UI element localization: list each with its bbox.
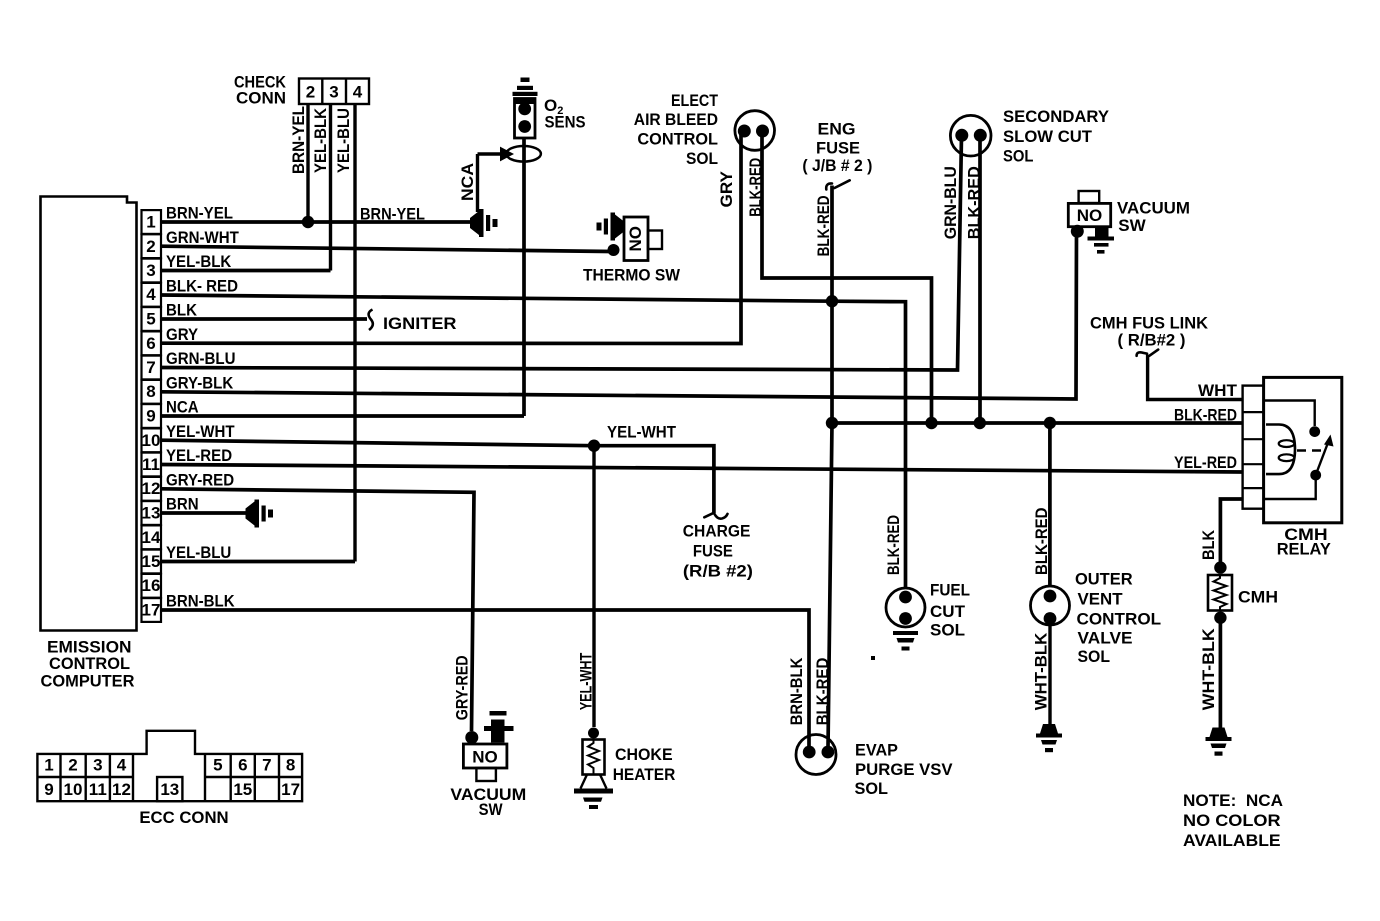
svg-text:FUSE: FUSE bbox=[816, 139, 860, 158]
wire pin1 BRN-YEL to chassis ground bbox=[161, 220, 471, 224]
svg-text:SLOW CUT: SLOW CUT bbox=[1003, 127, 1093, 146]
wire pin6 GRY to elect air bleed sol bbox=[161, 131, 741, 344]
wire WHT fus link to relay bbox=[1148, 355, 1243, 400]
svg-text:13: 13 bbox=[160, 780, 179, 799]
ground fuel cut bbox=[871, 631, 918, 660]
wire check conn 4 down bbox=[353, 104, 356, 562]
svg-text:3: 3 bbox=[329, 83, 338, 102]
svg-text:VALVE: VALVE bbox=[1078, 629, 1133, 648]
svg-text:SOL: SOL bbox=[1078, 647, 1111, 666]
svg-text:NO: NO bbox=[626, 226, 645, 252]
wire pin7 GRN-BLU to secondary slow cut sol bbox=[161, 135, 962, 370]
relay coil bbox=[1266, 425, 1295, 475]
relay switch arm bbox=[1310, 470, 1321, 481]
check connector box bbox=[299, 79, 369, 105]
svg-text:BLK-RED: BLK-RED bbox=[1174, 405, 1237, 424]
svg-text:CONTROL: CONTROL bbox=[49, 654, 130, 673]
svg-text:SECONDARY: SECONDARY bbox=[1003, 107, 1110, 126]
svg-text:EVAP: EVAP bbox=[855, 740, 898, 759]
svg-text:SOL: SOL bbox=[930, 621, 965, 640]
wire pin8 GRY-BLK to vacuum sw bbox=[161, 231, 1077, 399]
ECC pin 6 box bbox=[142, 331, 162, 355]
svg-text:HEATER: HEATER bbox=[613, 765, 676, 784]
wire pin5 BLK to igniter bbox=[161, 317, 367, 321]
junction bus / outer vent bbox=[1044, 417, 1056, 429]
thermo chassis ground bbox=[597, 213, 625, 241]
svg-text:CONTROL: CONTROL bbox=[637, 130, 718, 149]
svg-text:YEL-BLU: YEL-BLU bbox=[334, 108, 353, 173]
thermo switch bbox=[608, 217, 663, 261]
svg-text:GRN-WHT: GRN-WHT bbox=[166, 228, 239, 247]
ECC pin 16 box bbox=[142, 574, 162, 598]
wire WHT-BLK outer vent bbox=[1048, 625, 1051, 724]
svg-text:9: 9 bbox=[146, 407, 155, 426]
svg-text:SOL: SOL bbox=[855, 779, 889, 798]
svg-text:NO COLOR: NO COLOR bbox=[1183, 811, 1281, 830]
CMH relay bbox=[1243, 377, 1342, 522]
ECC pin 1 box bbox=[142, 210, 162, 234]
junction cmh resistor top bbox=[1214, 561, 1226, 573]
ECC pin 2 box bbox=[142, 234, 162, 258]
svg-text:YEL-RED: YEL-RED bbox=[1174, 453, 1237, 472]
ECC pin 5 box bbox=[142, 307, 162, 331]
svg-text:12: 12 bbox=[112, 780, 131, 799]
svg-text:BLK-RED: BLK-RED bbox=[813, 658, 832, 726]
ECC pin 13 box bbox=[142, 501, 162, 525]
svg-text:9: 9 bbox=[44, 780, 53, 799]
svg-text:4: 4 bbox=[117, 756, 127, 775]
wire check conn 3 down bbox=[329, 104, 332, 271]
earth ground outer vent bbox=[1036, 724, 1062, 752]
wire pin13 BRN to chassis ground bbox=[161, 511, 246, 515]
svg-text:VENT: VENT bbox=[1078, 590, 1124, 609]
svg-text:4: 4 bbox=[353, 83, 363, 102]
earth ground cmh bbox=[1206, 728, 1232, 756]
svg-text:14: 14 bbox=[142, 528, 161, 547]
relay dashed line bbox=[1297, 449, 1324, 451]
svg-text:BRN-BLK: BRN-BLK bbox=[787, 657, 806, 725]
svg-text:SOL: SOL bbox=[1003, 147, 1034, 166]
svg-text:CMH: CMH bbox=[1238, 588, 1278, 607]
wire BLK from relay bbox=[1220, 499, 1242, 568]
svg-text:CHOKE: CHOKE bbox=[615, 745, 673, 764]
elect air bleed control sol bbox=[735, 111, 775, 151]
svg-text:SENS: SENS bbox=[545, 113, 586, 132]
svg-text:( R/B#2 ): ( R/B#2 ) bbox=[1118, 331, 1186, 350]
svg-text:SOL: SOL bbox=[686, 149, 718, 168]
svg-text:BLK: BLK bbox=[166, 301, 198, 320]
svg-text:7: 7 bbox=[146, 358, 155, 377]
evap purge vsv sol bbox=[796, 735, 836, 775]
svg-text:YEL-BLU: YEL-BLU bbox=[166, 543, 231, 562]
svg-text:AIR BLEED: AIR BLEED bbox=[634, 110, 718, 129]
svg-text:YEL-BLK: YEL-BLK bbox=[166, 252, 232, 271]
svg-text:BRN-BLK: BRN-BLK bbox=[166, 592, 235, 611]
svg-text:ECC CONN: ECC CONN bbox=[139, 808, 228, 827]
ECC pin 4 box bbox=[142, 283, 162, 307]
wire pin17 BRN-BLK to evap purge sol bbox=[161, 610, 809, 747]
svg-text:15: 15 bbox=[233, 780, 252, 799]
wire BLK-RED outer vent bbox=[1048, 423, 1052, 586]
wire pin3 YEL-BLK to check conn 3 bbox=[161, 269, 331, 273]
wire slow cut BLK-RED down to bus bbox=[978, 135, 982, 423]
ECC CONN connector bbox=[37, 731, 302, 801]
svg-text:CHARGE: CHARGE bbox=[683, 522, 751, 541]
svg-text:BLK-RED: BLK-RED bbox=[884, 515, 903, 575]
connector grommet ellipse bbox=[506, 146, 541, 162]
svg-text:VACUUM: VACUUM bbox=[1117, 198, 1190, 217]
svg-text:CMH FUS LINK: CMH FUS LINK bbox=[1090, 313, 1209, 332]
svg-text:1: 1 bbox=[146, 213, 155, 232]
svg-text:11: 11 bbox=[142, 455, 160, 474]
svg-text:WHT-BLK: WHT-BLK bbox=[1032, 632, 1051, 710]
svg-text:BLK: BLK bbox=[1199, 529, 1218, 560]
junction eng fuse / bus bbox=[826, 417, 838, 429]
svg-text:AVAILABLE: AVAILABLE bbox=[1183, 831, 1281, 850]
wire air bleed BLK-RED bbox=[762, 131, 932, 423]
fuel cut sol bbox=[886, 588, 925, 627]
svg-text:17: 17 bbox=[142, 601, 161, 620]
svg-text:FUEL: FUEL bbox=[930, 581, 970, 600]
svg-text:YEL-WHT: YEL-WHT bbox=[577, 652, 596, 710]
svg-text:GRY: GRY bbox=[166, 325, 199, 344]
svg-text:SW: SW bbox=[1118, 216, 1146, 235]
svg-text:16: 16 bbox=[142, 576, 161, 595]
svg-text:NO: NO bbox=[1077, 206, 1103, 225]
chassis ground at wire 13 end bbox=[246, 500, 274, 528]
svg-text:GRY-RED: GRY-RED bbox=[453, 655, 472, 720]
svg-text:5: 5 bbox=[213, 756, 222, 775]
svg-text:7: 7 bbox=[262, 756, 271, 775]
svg-text:10: 10 bbox=[142, 431, 161, 450]
svg-text:13: 13 bbox=[142, 504, 161, 523]
relay arm to BLK pin bbox=[1264, 475, 1316, 499]
svg-text:WHT-BLK: WHT-BLK bbox=[1199, 628, 1218, 711]
ECC pin 12 box bbox=[142, 477, 162, 501]
emission control computer box bbox=[41, 197, 137, 631]
svg-text:RELAY: RELAY bbox=[1277, 539, 1332, 558]
wire pin10 YEL-WHT to charge fuse bbox=[161, 440, 714, 513]
svg-text:NO: NO bbox=[472, 748, 498, 767]
ECC pin 8 box bbox=[142, 380, 162, 404]
svg-text:BRN: BRN bbox=[166, 495, 199, 514]
svg-text:YEL-WHT: YEL-WHT bbox=[607, 423, 677, 442]
svg-text:1: 1 bbox=[44, 756, 53, 775]
svg-text:6: 6 bbox=[146, 334, 155, 353]
ECC pin 15 box bbox=[142, 550, 162, 574]
svg-text:2: 2 bbox=[146, 237, 155, 256]
secondary slow cut sol bbox=[950, 115, 991, 156]
igniter squiggle bbox=[369, 310, 373, 331]
junction air bleed / bus bbox=[925, 417, 937, 429]
chassis ground at wire 1 end bbox=[470, 209, 498, 237]
wire eng fuse down to evap purge bbox=[828, 186, 832, 749]
CMH resistor bbox=[1208, 575, 1232, 611]
ECC pin 11 box bbox=[142, 453, 162, 477]
svg-text:(R/B #2): (R/B #2) bbox=[683, 562, 753, 581]
wire pin2 GRN-WHT to thermo sw bbox=[161, 246, 611, 251]
ECC pin 10 box bbox=[142, 428, 162, 452]
svg-text:BLK- RED: BLK- RED bbox=[166, 276, 238, 295]
ECC pin 9 box bbox=[142, 404, 162, 428]
svg-text:OUTER: OUTER bbox=[1075, 570, 1133, 589]
eng fuse symbol bbox=[826, 180, 849, 189]
svg-text:10: 10 bbox=[64, 780, 83, 799]
svg-text:THERMO SW: THERMO SW bbox=[583, 266, 681, 285]
wire check conn 2 down bbox=[306, 104, 309, 222]
svg-text:BRN-YEL: BRN-YEL bbox=[289, 106, 308, 174]
svg-text:6: 6 bbox=[238, 756, 247, 775]
junction eng fuse / wire4 bbox=[826, 295, 838, 307]
svg-text:NCA: NCA bbox=[458, 163, 477, 201]
svg-text:NOTE: NCA: NOTE: NCA bbox=[1183, 791, 1283, 810]
ECC pin 14 box bbox=[142, 525, 162, 549]
wire pin4 BLK-RED bus bbox=[161, 295, 906, 589]
wire WHT-BLK cmh to ground bbox=[1219, 618, 1223, 728]
ECC pin 7 box bbox=[142, 356, 162, 380]
svg-text:GRY-BLK: GRY-BLK bbox=[166, 373, 234, 392]
svg-text:12: 12 bbox=[142, 479, 161, 498]
CMH fus link bbox=[1137, 350, 1159, 356]
svg-text:WHT: WHT bbox=[1198, 381, 1238, 400]
svg-text:ELECT: ELECT bbox=[671, 91, 719, 110]
svg-text:8: 8 bbox=[286, 756, 295, 775]
svg-text:2: 2 bbox=[68, 756, 77, 775]
vacuum switch top bbox=[1068, 191, 1114, 254]
wire pin15 YEL-BLU to check conn 4 bbox=[161, 560, 355, 564]
wire BLK-RED bus to relay bbox=[832, 421, 1243, 425]
relay internal contact from WHT pin bbox=[1264, 401, 1315, 427]
svg-text:GRN-BLU: GRN-BLU bbox=[941, 166, 960, 239]
svg-text:YEL-BLK: YEL-BLK bbox=[311, 107, 330, 173]
svg-text:CONTROL: CONTROL bbox=[1077, 610, 1162, 629]
svg-text:IGNITER: IGNITER bbox=[383, 314, 457, 333]
svg-text:BRN-YEL: BRN-YEL bbox=[360, 205, 425, 224]
svg-text:YEL-RED: YEL-RED bbox=[166, 446, 232, 465]
svg-text:CUT: CUT bbox=[930, 602, 966, 621]
wire pin9 NCA to O2 sensor bbox=[161, 414, 524, 418]
ECC pin 3 box bbox=[142, 259, 162, 283]
svg-text:PURGE VSV: PURGE VSV bbox=[855, 760, 953, 779]
junction slow cut / bus bbox=[974, 417, 986, 429]
svg-text:GRN-BLU: GRN-BLU bbox=[166, 349, 236, 368]
junction wire1 / check conn 2 bbox=[302, 216, 314, 228]
wire pin11 YEL-RED to CMH relay bbox=[161, 465, 1243, 473]
svg-text:SW: SW bbox=[479, 800, 504, 819]
svg-text:15: 15 bbox=[142, 552, 161, 571]
svg-text:5: 5 bbox=[146, 310, 155, 329]
svg-text:COMPUTER: COMPUTER bbox=[41, 672, 135, 691]
svg-text:CONN: CONN bbox=[236, 88, 286, 107]
svg-text:2: 2 bbox=[306, 83, 315, 102]
junction cmh resistor bottom bbox=[1214, 612, 1226, 624]
svg-text:3: 3 bbox=[146, 261, 155, 280]
O2 sensor body bbox=[513, 78, 538, 139]
ECC pin 17 box bbox=[142, 598, 162, 622]
svg-text:( J/B # 2 ): ( J/B # 2 ) bbox=[802, 156, 872, 175]
svg-text:3: 3 bbox=[93, 756, 102, 775]
svg-text:FUSE: FUSE bbox=[693, 542, 733, 561]
svg-text:11: 11 bbox=[89, 780, 107, 799]
svg-text:GRY: GRY bbox=[717, 170, 736, 207]
svg-text:BLK-RED: BLK-RED bbox=[1032, 508, 1051, 576]
choke heater bbox=[574, 728, 613, 810]
wire pin12 GRY-RED to vacuum sw bottom bbox=[161, 489, 474, 731]
wire YEL-WHT to choke heater bbox=[592, 446, 595, 727]
svg-text:17: 17 bbox=[281, 780, 300, 799]
svg-text:GRY-RED: GRY-RED bbox=[166, 470, 234, 489]
junction wire10 / choke heater branch bbox=[588, 440, 600, 452]
wire O2 sensor down to pin 9 bbox=[522, 138, 526, 416]
svg-text:ENG: ENG bbox=[818, 120, 856, 139]
svg-text:8: 8 bbox=[146, 382, 155, 401]
svg-text:YEL-WHT: YEL-WHT bbox=[166, 422, 235, 441]
svg-text:NCA: NCA bbox=[166, 398, 199, 417]
svg-text:BRN-YEL: BRN-YEL bbox=[166, 204, 233, 223]
charge fuse symbol bbox=[704, 513, 727, 518]
svg-text:4: 4 bbox=[146, 285, 156, 304]
NCA wire with arrow into grommet bbox=[478, 152, 501, 155]
